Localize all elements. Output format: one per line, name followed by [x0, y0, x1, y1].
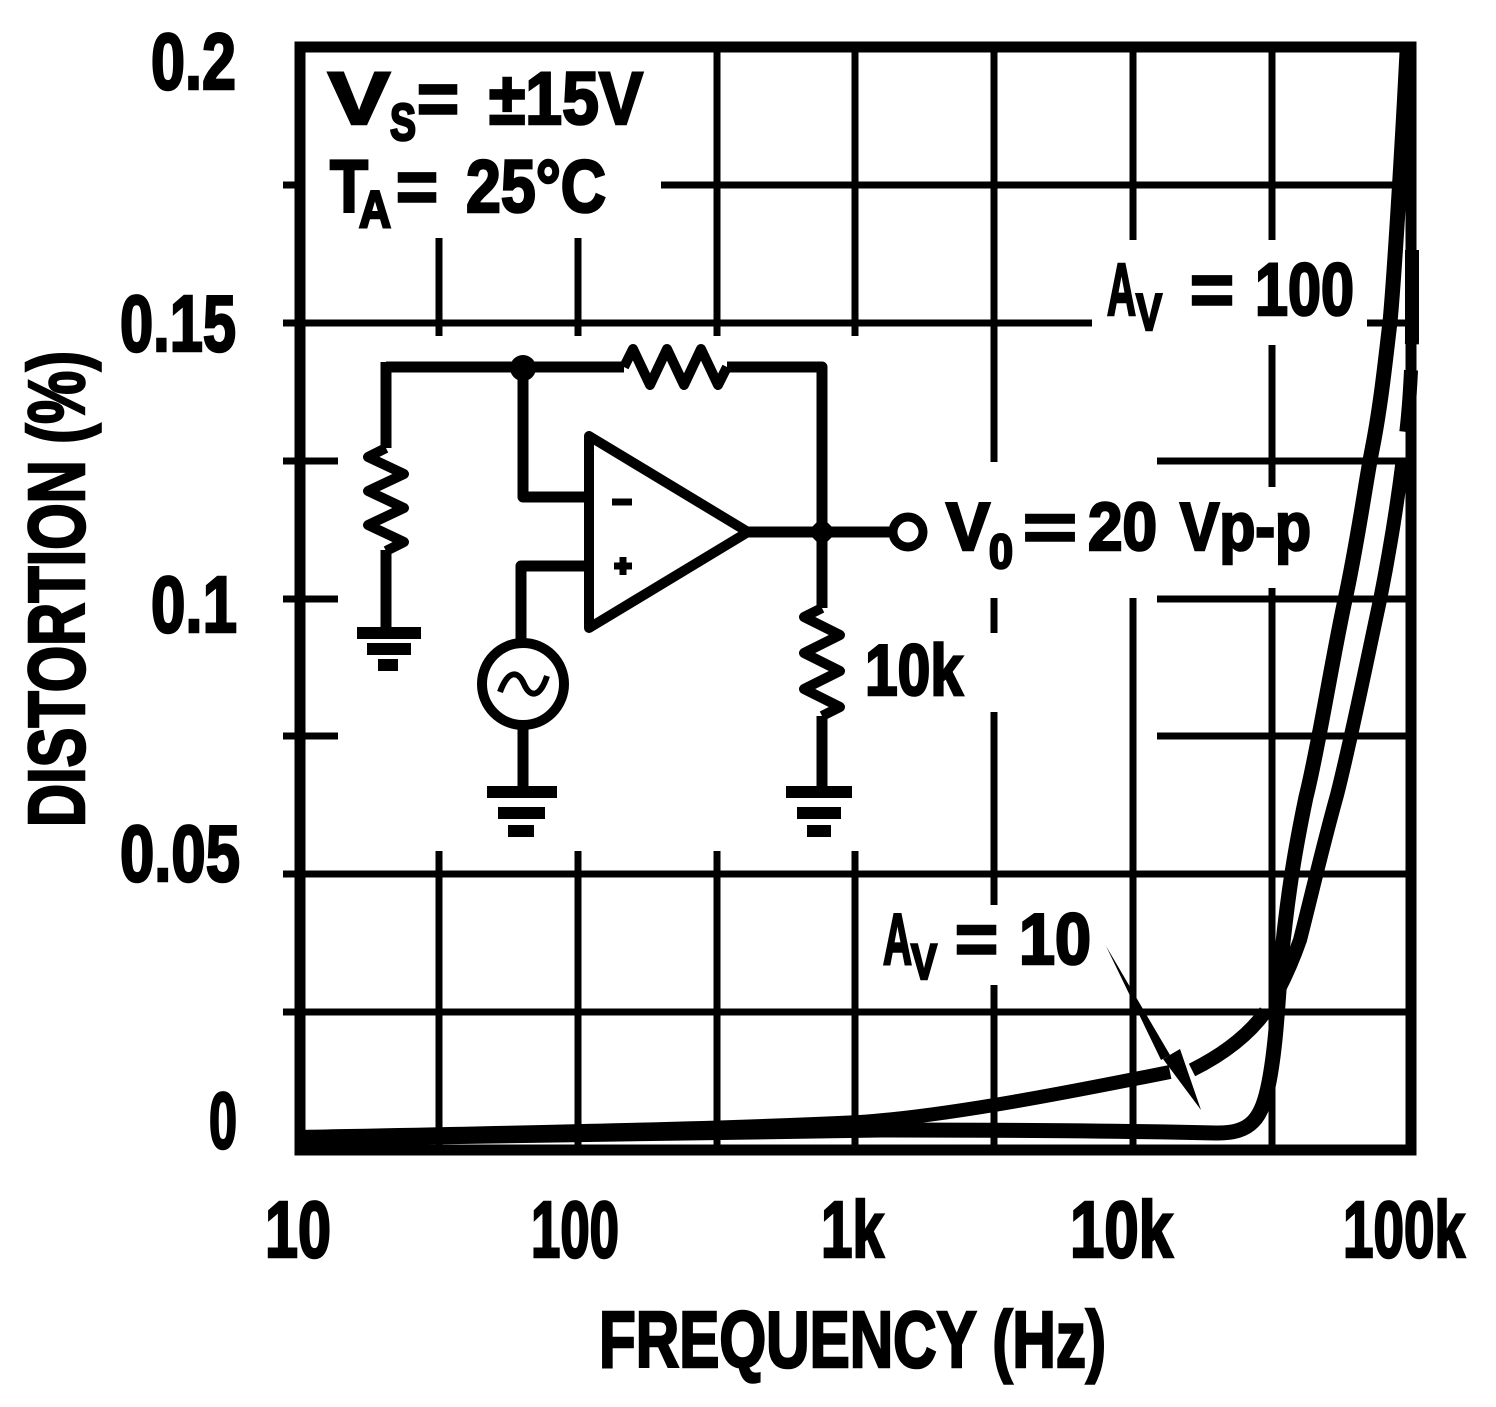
label V0 = 20 Vp-p — [946, 489, 1311, 579]
svg-text:0.05: 0.05 — [120, 809, 240, 898]
svg-text:A: A — [1107, 248, 1136, 331]
wire source to ground — [518, 725, 529, 792]
label AV = 100 — [1107, 248, 1354, 342]
svg-text:=: = — [955, 900, 998, 980]
plot frame — [300, 47, 1411, 1150]
svg-text:±15V: ±15V — [489, 57, 643, 140]
op-amp U1 — [589, 436, 748, 628]
svg-text:A: A — [883, 900, 912, 980]
svg-text:25°C: 25°C — [466, 145, 606, 228]
junction node at output — [807, 517, 837, 547]
grid minor vertical 31.6kHz — [1269, 52, 1276, 1145]
grid minor vertical 31.6Hz — [436, 238, 443, 1145]
resistor R1 input shunt (vertical zigzag) — [368, 448, 404, 551]
trace AV=10 rising solid segment — [300, 1072, 1170, 1137]
svg-text:10k: 10k — [865, 631, 964, 711]
svg-text:20: 20 — [1088, 489, 1157, 565]
resistor R2 feedback (horizontal zigzag) — [624, 349, 727, 385]
svg-text:10k: 10k — [1070, 1185, 1173, 1274]
svg-text:=: = — [1023, 489, 1077, 565]
wire top from R1 to R2 — [386, 362, 624, 373]
label TA = 25°C — [330, 145, 606, 239]
grid minor vertical 3.16kHz — [991, 52, 998, 1145]
svg-text:=: = — [396, 145, 438, 228]
svg-text:0.2: 0.2 — [151, 17, 236, 106]
grid major vertical 100Hz — [575, 238, 582, 1145]
junction node at inverting input wire — [510, 355, 536, 381]
grid major vertical 1kHz — [852, 52, 859, 1145]
svg-text:S: S — [390, 94, 416, 152]
wire op-amp output — [748, 527, 892, 538]
svg-text:10: 10 — [1019, 900, 1091, 980]
ground G2 (source) — [487, 792, 557, 831]
svg-text:0.1: 0.1 — [151, 560, 237, 649]
svg-text:Vp-p: Vp-p — [1180, 489, 1311, 565]
grid major vertical 10kHz — [1130, 52, 1137, 1145]
svg-text:V: V — [911, 934, 937, 990]
svg-text:=: = — [1190, 248, 1234, 331]
op-amp minus sign — [612, 499, 632, 506]
ground G3 (10k) — [786, 792, 852, 831]
wire R1 to ground — [381, 550, 392, 633]
grid minor horizontal 0.125 — [283, 458, 1406, 465]
wire 10k resistor top — [817, 532, 828, 608]
svg-text:1k: 1k — [821, 1185, 884, 1274]
circuit inset — [386, 362, 892, 792]
svg-text:=: = — [417, 57, 459, 140]
svg-text:V: V — [946, 489, 990, 565]
ground G1 (R1) — [357, 633, 421, 665]
grid major horizontal 0.1 — [283, 596, 1406, 603]
output terminal circle — [893, 517, 923, 547]
svg-text:0.15: 0.15 — [120, 279, 236, 368]
wire R1 vertical drop — [381, 362, 392, 448]
svg-text:V: V — [328, 57, 390, 140]
wire non-inverting input — [521, 566, 586, 642]
label AV = 10 — [883, 900, 1091, 990]
svg-text:V: V — [1136, 284, 1162, 342]
sine symbol inside source — [500, 674, 547, 693]
trace AV=100 solid curve — [300, 52, 1407, 1139]
grid major horizontal 0.05 — [283, 871, 1406, 878]
svg-text:0: 0 — [989, 526, 1013, 579]
svg-text:100k: 100k — [1343, 1185, 1465, 1274]
label VS = ±15V — [328, 57, 643, 152]
svg-text:100: 100 — [531, 1185, 619, 1274]
trace AV=10 dashed segment — [1192, 250, 1412, 1070]
grid major horizontal 0.15 — [283, 320, 1406, 327]
op-amp plus sign — [614, 557, 632, 575]
wire R2 to output corner — [727, 367, 822, 532]
wire inverting input — [523, 368, 586, 497]
grid minor horizontal 0.175 — [283, 52, 1406, 1145]
svg-text:FREQUENCY (Hz): FREQUENCY (Hz) — [599, 1295, 1106, 1384]
svg-text:10: 10 — [265, 1185, 331, 1274]
grid minor vertical 316Hz — [714, 52, 721, 1145]
grid minor horizontal 0.075 — [283, 733, 1406, 740]
svg-text:DISTORTION (%): DISTORTION (%) — [12, 351, 101, 827]
svg-text:A: A — [359, 181, 391, 239]
wire 10k resistor to ground — [817, 716, 828, 792]
svg-text:0: 0 — [209, 1076, 237, 1165]
arrow pointing to AV=10 curve — [1106, 946, 1201, 1110]
resistor R3 10k load (vertical zigzag) — [804, 608, 840, 716]
grid minor horizontal 0.025 — [283, 1009, 1406, 1016]
signal source V1 — [482, 643, 564, 725]
svg-text:100: 100 — [1255, 248, 1354, 331]
